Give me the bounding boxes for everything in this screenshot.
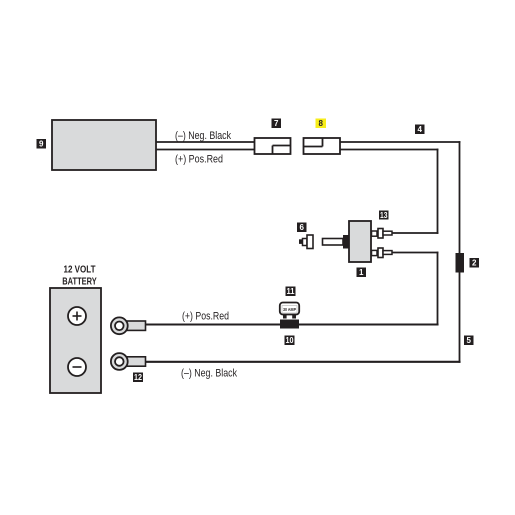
- svg-text:7: 7: [274, 119, 279, 128]
- switch S1 bottom terminal: [372, 248, 393, 258]
- switch boot nut 6 base: [307, 235, 313, 249]
- svg-text:5: 5: [467, 336, 472, 345]
- switch S1 mounting bushing: [343, 235, 349, 249]
- switch S1 toggle lever: [323, 239, 344, 246]
- battery negative post: [68, 358, 86, 376]
- fuse holder 10: [280, 320, 299, 329]
- wire from connector 8 top pin to right side: [340, 141, 460, 143]
- label 7: [272, 119, 282, 129]
- label 13: [379, 211, 389, 220]
- wire from switch bottom terminal: [392, 252, 438, 254]
- switch S1 body: [349, 221, 371, 262]
- svg-text:2: 2: [472, 259, 477, 268]
- ring terminal positive: [111, 317, 146, 334]
- svg-text:10: 10: [286, 336, 294, 345]
- svg-text:4: 4: [418, 125, 423, 134]
- wire bottom negative run to battery: [146, 361, 460, 363]
- svg-text:8: 8: [319, 119, 324, 128]
- label 2: [470, 258, 480, 268]
- svg-text:(–) Neg. Black: (–) Neg. Black: [181, 368, 237, 380]
- battery body: [50, 288, 101, 393]
- svg-text:12 VOLT: 12 VOLT: [64, 265, 96, 276]
- ring terminal negative: [111, 353, 146, 370]
- label 9: [37, 139, 47, 149]
- switch boot nut 6 middle: [303, 239, 308, 246]
- label 12: [133, 373, 143, 383]
- wire from connector 8 bottom pin: [340, 149, 438, 151]
- svg-text:(+) Pos.Red: (+) Pos.Red: [182, 311, 229, 323]
- label 6: [297, 223, 307, 233]
- wire right vertical negative run: [459, 142, 461, 362]
- svg-text:(+) Pos.Red: (+) Pos.Red: [175, 154, 223, 166]
- svg-text:12: 12: [134, 373, 142, 382]
- label 10: [285, 336, 295, 346]
- label 4: [415, 125, 425, 135]
- label 11: [286, 287, 296, 297]
- wire positive fuse line from battery: [146, 323, 438, 325]
- wire positive cable from device to connector 7: [156, 149, 255, 151]
- connector C8 body: [304, 138, 341, 154]
- splice component 2: [456, 253, 465, 273]
- device box (light) 9: [52, 120, 156, 170]
- svg-text:9: 9: [39, 140, 44, 149]
- svg-text:30 AMP: 30 AMP: [283, 307, 296, 312]
- switch boot nut 6 tip: [299, 239, 303, 244]
- wire vertical down to switch top terminal: [437, 150, 439, 234]
- svg-text:BATTERY: BATTERY: [62, 277, 97, 288]
- label 1: [357, 268, 367, 278]
- svg-text:1: 1: [359, 268, 364, 277]
- battery positive post: [68, 307, 86, 325]
- wire negative cable from device to connector 7: [156, 141, 255, 143]
- svg-text:11: 11: [287, 287, 296, 296]
- wire to switch top terminal: [392, 232, 438, 234]
- switch S1 top terminal: [372, 229, 393, 239]
- svg-text:13: 13: [380, 211, 388, 220]
- wire vertical down to fuse line: [437, 253, 439, 325]
- fuse F1 body 30 AMP: [280, 303, 299, 319]
- svg-text:(–) Neg. Black: (–) Neg. Black: [175, 130, 231, 142]
- label 5: [464, 336, 474, 346]
- label 8 highlighted: [316, 119, 327, 129]
- connector C7 body: [255, 138, 291, 154]
- svg-text:6: 6: [300, 223, 305, 232]
